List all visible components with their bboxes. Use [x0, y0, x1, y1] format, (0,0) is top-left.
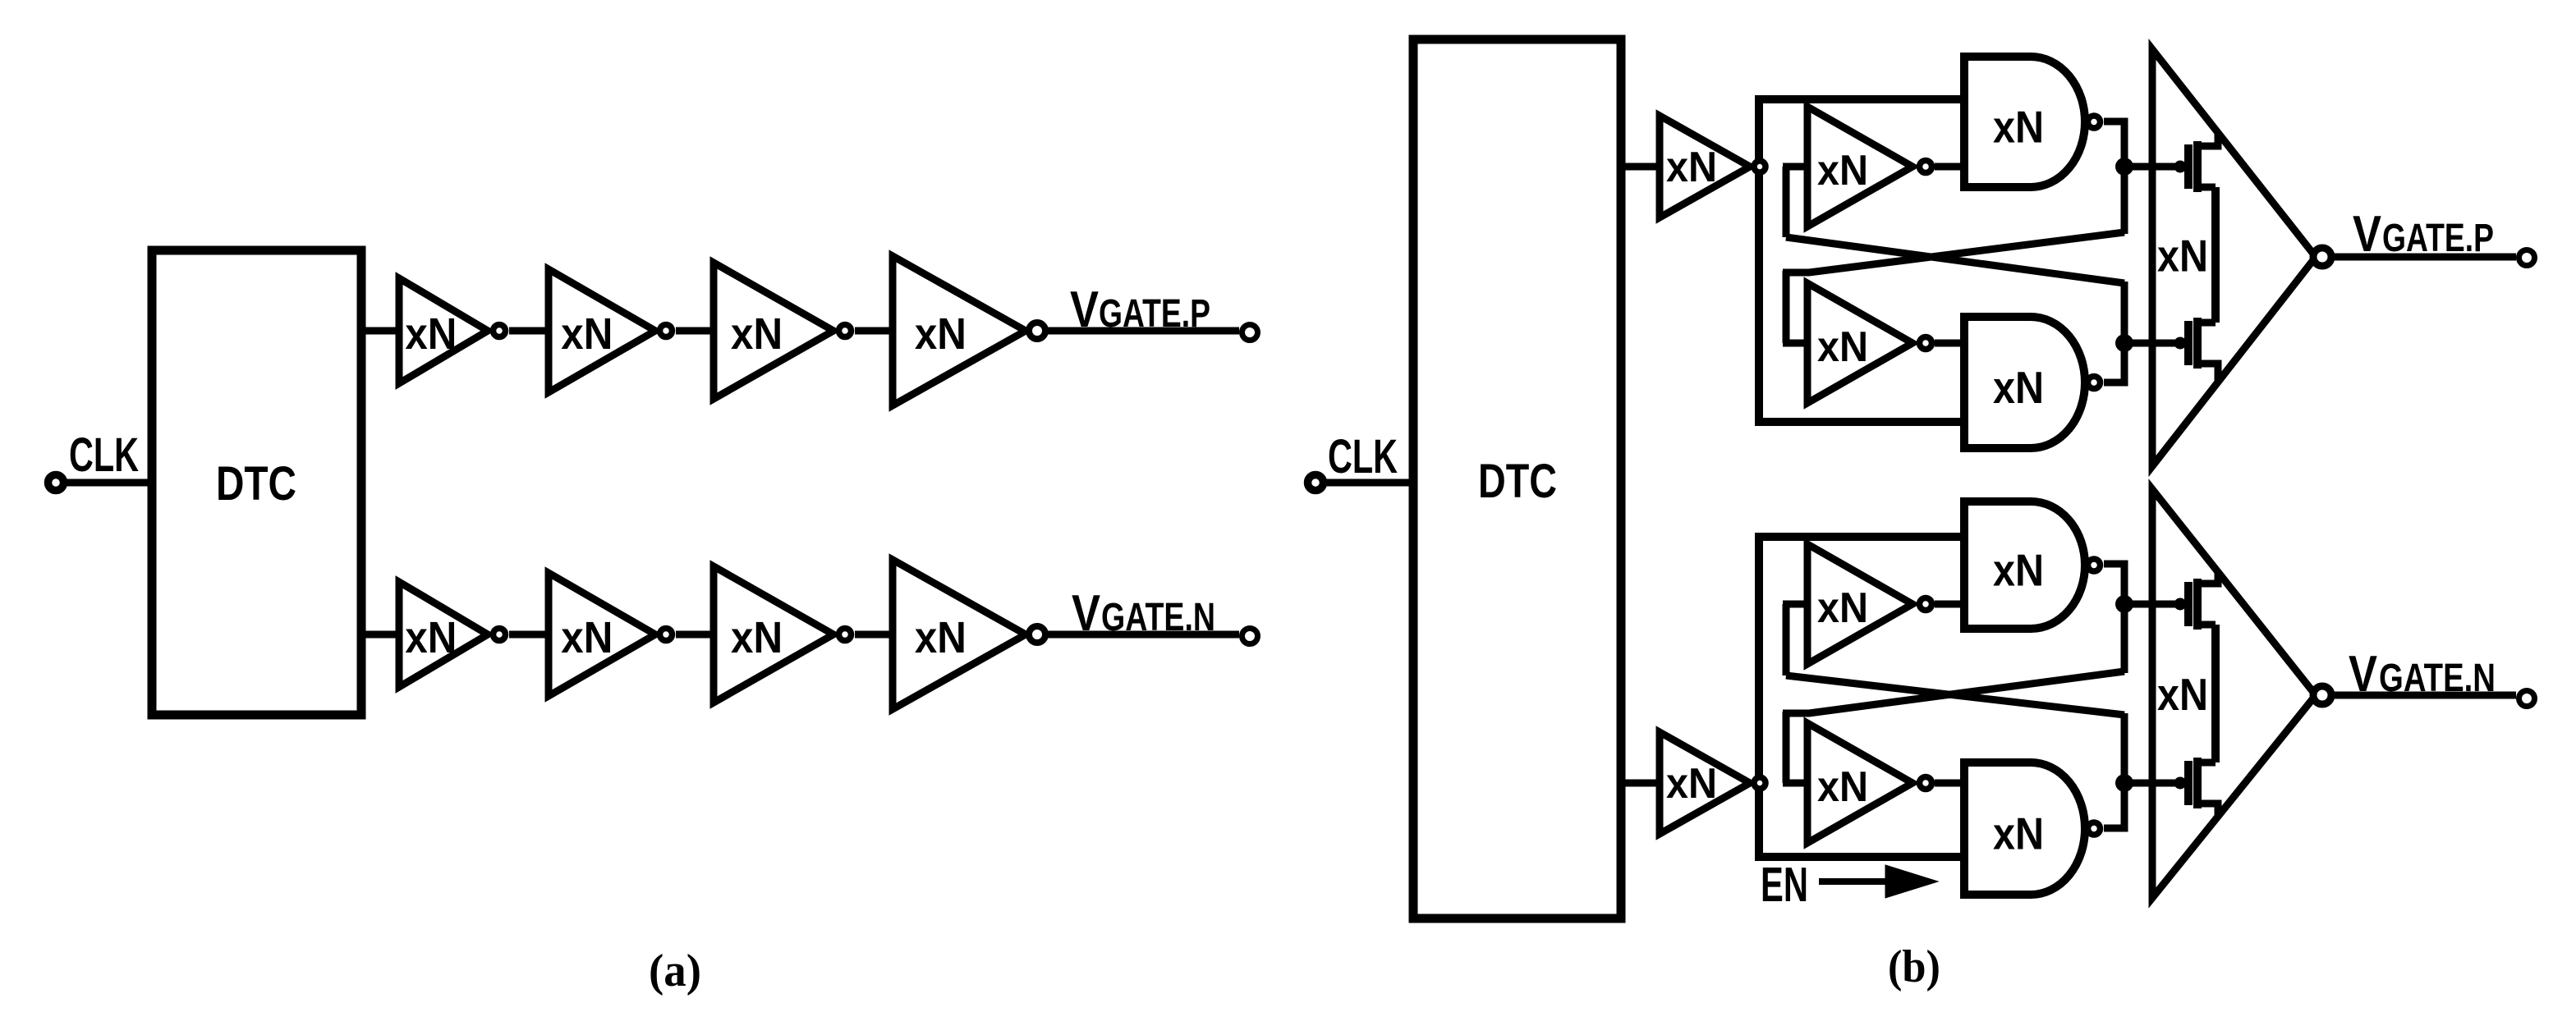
svg-text:xN: xN [1817, 584, 1868, 632]
svg-text:xN: xN [405, 309, 457, 359]
svg-text:CLK: CLK [1328, 430, 1398, 483]
svg-text:CLK: CLK [69, 428, 139, 482]
svg-text:DTC: DTC [1478, 455, 1557, 508]
svg-text:GATE.P: GATE.P [1099, 292, 1210, 336]
svg-text:xN: xN [561, 613, 613, 662]
svg-text:DTC: DTC [216, 457, 296, 511]
svg-text:GATE.N: GATE.N [2379, 657, 2496, 700]
svg-text:xN: xN [1993, 102, 2044, 153]
svg-text:V: V [2353, 206, 2381, 263]
svg-text:xN: xN [1817, 147, 1868, 195]
svg-text:xN: xN [561, 309, 613, 359]
svg-text:xN: xN [1993, 545, 2044, 596]
svg-text:xN: xN [731, 309, 783, 359]
svg-text:EN: EN [1761, 858, 1808, 912]
svg-text:xN: xN [1993, 362, 2044, 413]
svg-text:xN: xN [2157, 231, 2208, 282]
svg-text:xN: xN [2157, 669, 2208, 720]
svg-text:V: V [1072, 585, 1100, 642]
svg-text:GATE.N: GATE.N [1101, 596, 1215, 639]
svg-text:xN: xN [405, 613, 457, 662]
svg-text:xN: xN [1993, 808, 2044, 859]
svg-text:V: V [2349, 646, 2377, 703]
svg-text:xN: xN [915, 309, 967, 359]
svg-text:xN: xN [1817, 763, 1868, 811]
svg-text:xN: xN [731, 613, 783, 662]
svg-text:xN: xN [915, 613, 967, 662]
svg-text:xN: xN [1817, 323, 1868, 371]
svg-text:(b): (b) [1888, 941, 1940, 992]
svg-text:GATE.P: GATE.P [2382, 217, 2494, 260]
svg-text:(a): (a) [649, 946, 701, 996]
svg-text:xN: xN [1666, 760, 1717, 808]
svg-text:V: V [1070, 282, 1099, 338]
svg-text:xN: xN [1666, 144, 1717, 191]
